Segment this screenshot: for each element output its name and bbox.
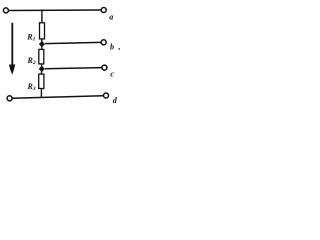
svg-text:b: b	[110, 43, 114, 52]
svg-text:c: c	[110, 69, 114, 78]
svg-text:a: a	[109, 13, 113, 22]
